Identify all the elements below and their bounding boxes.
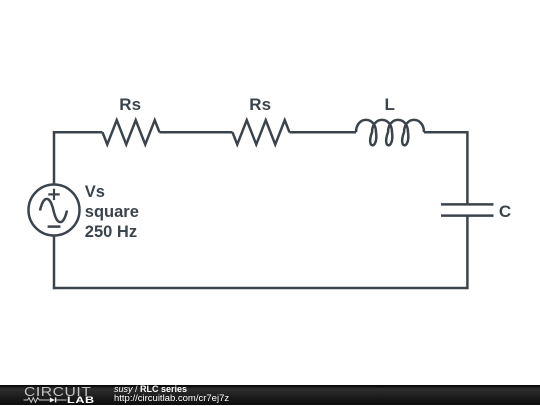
wire left vertical lower [53,236,56,290]
voltage source plus terminal [48,189,59,200]
label L [385,96,395,113]
resistor Rs (second, middle) [233,120,290,144]
footer title line [114,385,187,394]
wire top-left segment [53,131,103,134]
CircuitLab logo schematic line with resistor and diode [22,395,72,405]
wire between R2 and L [290,131,357,134]
footer url line [114,394,229,404]
label C [499,203,511,220]
inductor L [356,120,424,145]
wire right vertical lower [466,216,469,290]
wire left vertical upper [53,131,56,184]
footer bar [0,385,540,406]
capacitor C plates [441,204,494,215]
CircuitLab logo word LAB [67,396,95,406]
wire right vertical upper [466,131,469,204]
wire between R1 and R2 [160,131,233,134]
wire between L and right corner [424,131,469,134]
CircuitLab logo word CIRCUIT [24,385,91,398]
label Rs for second resistor [249,96,271,113]
wire bottom [53,287,469,290]
label Rs for first resistor [119,96,141,113]
voltage source minus terminal [48,225,61,228]
voltage source Vs circle [29,185,80,236]
resistor Rs (first, left) [103,120,160,144]
label Vs name and value text (Vs / square / 250 Hz) [85,182,139,242]
voltage source sine wave [40,199,67,222]
